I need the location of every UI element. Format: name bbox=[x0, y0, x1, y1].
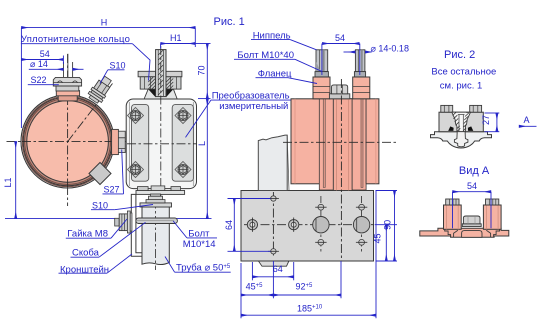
svg-text:54: 54 bbox=[40, 49, 50, 59]
plate hole large 1 bbox=[313, 217, 329, 233]
right flange boss bbox=[353, 77, 370, 99]
plate hole small top-left bbox=[271, 196, 276, 201]
vid A dim extension lines bbox=[452, 192, 454, 229]
transducer side view gray shape bbox=[258, 135, 287, 190]
dimension 70 bbox=[206, 44, 208, 99]
svg-text:S27: S27 bbox=[104, 184, 120, 194]
svg-text:H: H bbox=[101, 17, 108, 27]
transducer block body bbox=[126, 99, 196, 189]
gland nuts bbox=[140, 77, 155, 89]
S10 fitting diagonal at pipe top right bbox=[86, 74, 114, 105]
S22 hex fitting head bbox=[56, 86, 79, 91]
dimension 54 top bbox=[322, 43, 359, 45]
svg-text:54: 54 bbox=[335, 33, 345, 43]
dimension d14 bbox=[29, 68, 64, 70]
satellite holes large2 bbox=[359, 204, 365, 210]
plug fitting S27 diagonal square bbox=[89, 163, 111, 185]
svg-text:Рис. 1: Рис. 1 bbox=[214, 16, 245, 28]
block bolt top-left bbox=[128, 108, 144, 124]
svg-text:70: 70 bbox=[196, 65, 206, 75]
svg-text:54: 54 bbox=[467, 181, 477, 191]
block bolt top-right bbox=[175, 108, 191, 124]
gland washers bbox=[138, 71, 156, 77]
fig2 seal rings black bbox=[448, 126, 453, 130]
nut M8 bbox=[119, 214, 127, 231]
svg-text:L1: L1 bbox=[3, 177, 13, 187]
seal rings black bbox=[149, 90, 156, 98]
body centerline horizontal bbox=[283, 141, 396, 143]
fig2 bolt head left bbox=[441, 105, 453, 112]
fig2 central cavity bbox=[452, 112, 471, 132]
vid A tower right cap bbox=[486, 199, 499, 205]
svg-text:S10: S10 bbox=[92, 200, 108, 210]
svg-text:S22: S22 bbox=[31, 75, 47, 85]
fig2 stem below bbox=[454, 132, 468, 147]
dimension 45+5 bbox=[241, 294, 273, 296]
svg-text:45: 45 bbox=[372, 233, 382, 243]
svg-text:⌀ 14-0.18: ⌀ 14-0.18 bbox=[371, 43, 409, 53]
dimension 92+5 bbox=[273, 294, 341, 296]
fig2 bolt head right bbox=[470, 105, 482, 112]
block centerline horizontal bbox=[127, 143, 197, 145]
bolt M10x40 right bbox=[355, 50, 365, 72]
svg-text:27: 27 bbox=[481, 115, 491, 125]
vid A center cap bbox=[462, 224, 481, 227]
plate centerline small holes bbox=[272, 192, 274, 258]
wire extension line bolt axis bbox=[5, 218, 212, 220]
svg-text:⌀ 14: ⌀ 14 bbox=[30, 59, 48, 69]
dimension L1 bbox=[15, 141, 17, 218]
cavity inner channel bbox=[458, 115, 460, 132]
vid A tower right bbox=[483, 205, 501, 229]
packing hatch left bbox=[148, 77, 155, 90]
dimension H1 bbox=[161, 43, 196, 45]
dimension 64 horizontal bbox=[252, 276, 293, 278]
saddle clamp on pipe bbox=[140, 203, 172, 207]
plate tab below bbox=[258, 261, 289, 266]
dimension 90 bbox=[394, 191, 396, 262]
pipe (truba) bbox=[142, 207, 169, 265]
vid A tower left cap bbox=[446, 199, 459, 205]
S22 fitting boss on pipe top bbox=[58, 95, 77, 101]
plate hole medium 1 bbox=[247, 220, 257, 230]
fig2 block body bbox=[439, 112, 483, 132]
plate centerline large hole columns bbox=[320, 196, 322, 253]
vid A tower left bbox=[444, 205, 462, 229]
plate hole medium 2 bbox=[289, 220, 299, 230]
dimension 45 bbox=[385, 225, 387, 261]
svg-text:64: 64 bbox=[224, 220, 234, 230]
svg-text:H1: H1 bbox=[170, 33, 182, 43]
pipe centerline bbox=[155, 200, 157, 271]
pipe circle centerlines inner bbox=[22, 141, 113, 143]
body inner bands bbox=[319, 99, 366, 190]
svg-text:Вид А: Вид А bbox=[459, 165, 490, 177]
bolt M10x14 horizontal bbox=[136, 218, 178, 224]
dimension L bbox=[206, 99, 208, 219]
block neck trapezoid bbox=[144, 89, 177, 99]
dimension H bbox=[21, 27, 195, 29]
dimension 54 vid A bbox=[453, 191, 492, 193]
dimension 185+10 bbox=[241, 314, 376, 316]
view arrow A bbox=[519, 125, 537, 127]
body right panel line bbox=[365, 99, 367, 184]
bracket (kronshtein) bbox=[131, 194, 147, 256]
base plate bbox=[241, 191, 374, 262]
block bolt bottom-right bbox=[175, 162, 191, 178]
transducer block left plate bbox=[132, 105, 149, 182]
svg-text:L: L bbox=[197, 141, 207, 146]
central hex cap bbox=[329, 94, 349, 99]
svg-text:А: А bbox=[524, 115, 530, 125]
dimension 64 vertical bbox=[233, 199, 235, 252]
stud lines above S22 fitting bbox=[63, 62, 65, 77]
nipple boss pipe to block bbox=[112, 129, 119, 154]
bolt end stub left bbox=[115, 218, 120, 226]
transducer block right plate bbox=[172, 105, 193, 182]
svg-text:Рис. 2: Рис. 2 bbox=[444, 49, 475, 61]
plate centerline horizontal bbox=[244, 224, 374, 226]
vid A flange step notches bbox=[445, 228, 458, 237]
plate hole large 2 bbox=[353, 217, 369, 233]
svg-text:измерительный: измерительный bbox=[219, 101, 288, 112]
washer bars bbox=[127, 211, 130, 233]
packing hatch right bbox=[166, 77, 173, 90]
center column bbox=[333, 99, 352, 191]
block bottom flange bbox=[136, 191, 185, 195]
pipe circle centerline horizontal bbox=[7, 141, 134, 143]
dimension d14-0.18 bbox=[344, 51, 356, 53]
flange bolts row bbox=[138, 187, 149, 191]
S10 nut stack bbox=[146, 200, 165, 203]
svg-text:64: 64 bbox=[273, 264, 283, 274]
dimension 27 bbox=[453, 113, 537, 192]
bolt M10x40 left bbox=[316, 50, 328, 72]
stud centerline bbox=[160, 46, 162, 196]
salmon main body bbox=[291, 99, 379, 184]
cavity hatch bbox=[453, 112, 470, 131]
svg-text:М10*14: М10*14 bbox=[183, 239, 216, 250]
left figure dimensions bbox=[3, 17, 231, 275]
satellite holes large1 bbox=[318, 204, 324, 210]
block bolt bottom-left bbox=[128, 162, 144, 178]
vid A center hump bbox=[462, 231, 482, 238]
nipple S27 between pipe and block bbox=[118, 131, 125, 138]
pipe circle bbox=[23, 97, 112, 186]
dimension 54 left bbox=[21, 59, 63, 61]
svg-text:S10: S10 bbox=[110, 61, 126, 71]
stud rod bbox=[156, 50, 166, 97]
vid A bottom flange bbox=[420, 228, 509, 237]
fig2 bottom flange bbox=[431, 132, 492, 148]
svg-text:Все остальное: Все остальное bbox=[431, 67, 496, 78]
body centerline vertical bbox=[340, 79, 342, 262]
middle figure dimensions bbox=[186, 16, 409, 318]
plate hole small bottom-left bbox=[271, 249, 276, 254]
pipe circle centerline vertical bbox=[67, 54, 69, 206]
left flange boss bbox=[313, 77, 330, 99]
svg-text:см. рис. 1: см. рис. 1 bbox=[440, 81, 482, 92]
